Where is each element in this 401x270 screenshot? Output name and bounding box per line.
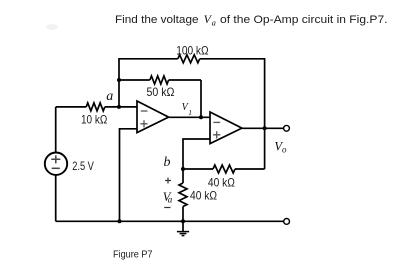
voltage source 2.5 V	[45, 153, 67, 175]
resistor R 100 kOhm	[178, 55, 200, 63]
label V1	[182, 102, 192, 117]
junction dot 50k branch	[117, 78, 121, 82]
title text	[115, 12, 388, 28]
terminal output top	[284, 125, 290, 131]
wire node to 50k	[119, 79, 150, 81]
svg-text:100 kΩ: 100 kΩ	[176, 43, 208, 57]
label Va	[163, 190, 173, 205]
junction dot rail ground	[181, 219, 185, 223]
svg-text:of the Op-Amp circuit in Fig.P: of the Op-Amp circuit in Fig.P7.	[220, 14, 388, 26]
terminal output bottom	[284, 219, 290, 225]
wire source top lead	[55, 107, 57, 153]
wire op-amp U1 output to U2	[169, 116, 210, 118]
svg-text:Figure P7: Figure P7	[113, 248, 153, 260]
wire node b down to 40k vertical	[182, 169, 184, 183]
svg-text:40 kΩ: 40 kΩ	[208, 176, 235, 190]
wire source to 10k	[56, 106, 86, 108]
svg-text:50 kΩ: 50 kΩ	[147, 85, 175, 99]
svg-text:10 kΩ: 10 kΩ	[81, 112, 107, 126]
wire node b to 40k	[183, 168, 213, 170]
label plus sign of Va	[165, 178, 171, 184]
wire source bottom lead	[55, 175, 57, 221]
op-amp U2	[210, 112, 242, 144]
wire op-amp U1 plus input down to rail	[120, 129, 138, 222]
svg-text:2.5 V: 2.5 V	[72, 159, 94, 173]
node b dot	[181, 167, 185, 171]
svg-text:a: a	[106, 89, 113, 104]
junction dot rail left	[118, 219, 122, 223]
wire bottom rail	[56, 220, 284, 222]
node V1 dot	[199, 115, 203, 119]
node Vo dot	[263, 126, 267, 130]
svg-text:Find the voltage: Find the voltage	[115, 14, 199, 26]
ground	[177, 221, 189, 235]
node a dot	[117, 105, 121, 109]
label Vo	[274, 140, 287, 155]
wire output stub to terminal	[265, 127, 284, 129]
wire 40k to right column	[235, 168, 265, 170]
wire 50k to V1 column	[169, 79, 201, 81]
wire right vertical feedback column	[264, 58, 266, 169]
label minus sign of Va	[164, 207, 170, 209]
wire op-amp U2 output	[242, 127, 265, 129]
svg-text:40 kΩ: 40 kΩ	[190, 189, 217, 203]
svg-text:o: o	[282, 144, 287, 154]
wire 40k vertical to rail	[182, 207, 184, 222]
resistor R 10 kOhm	[86, 103, 105, 111]
wire op-amp U2 plus input down to node b	[183, 139, 210, 169]
wire left vertical (node a column)	[118, 58, 120, 107]
resistor R 40 kOhm to ground	[179, 183, 187, 207]
svg-text:b: b	[164, 155, 171, 170]
wire top-left to 100k	[119, 58, 178, 60]
svg-text:a: a	[168, 194, 173, 204]
resistor R 50 kOhm	[150, 76, 169, 84]
wire V1 vertical	[200, 80, 202, 117]
svg-text:a: a	[212, 18, 216, 28]
svg-text:1: 1	[188, 108, 192, 117]
wire 100k to right corner	[200, 58, 265, 60]
resistor R 40 kOhm feedback	[213, 165, 235, 173]
faint smudge artifact	[46, 24, 58, 30]
op-amp U1	[137, 101, 169, 133]
wire 10k to op-amp U1 minus input	[105, 106, 137, 108]
